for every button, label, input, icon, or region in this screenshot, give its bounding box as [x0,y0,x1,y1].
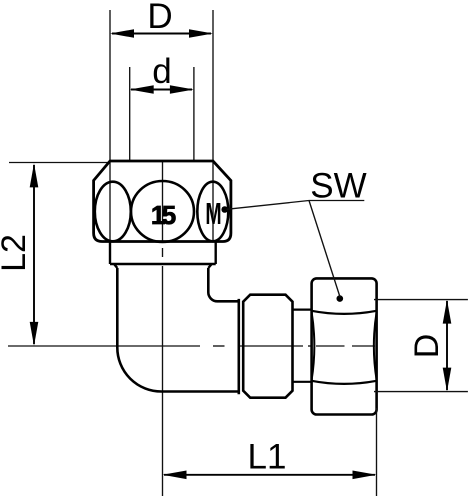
step ring at pipe end [238,299,241,394]
top nut body outline [94,161,231,242]
svg-text:L1: L1 [248,438,287,477]
top nut center facet ellipse [131,181,194,242]
dimension L1 arrow left [163,471,187,480]
top nut left facet ellipse [95,182,131,242]
svg-text:d: d [152,52,171,91]
dimension L1 extension line right [376,408,378,496]
leader dot on right nut [337,295,344,302]
dimension D (top) arrow right [189,29,213,38]
dimension D (top) arrow left [110,29,134,38]
dimension L2 extension line top [9,162,108,164]
SW underline [309,200,364,202]
vertical centerline of elbow axis [162,161,164,496]
dimension D (right) extension line top [374,299,468,301]
dimension L1 arrow right [353,471,377,480]
svg-text:15: 15 [151,200,176,230]
right nut facet line top [312,311,377,314]
elbow body outer contour [117,268,239,392]
right nut chamfer arc right [374,312,377,380]
svg-text:D: D [408,334,446,359]
dimension d dimension line [131,89,192,91]
leader dot at M facet [221,206,228,213]
dimension d extension line right [193,67,195,161]
svg-text:L2: L2 [0,234,33,272]
right nut outline [312,278,377,414]
dimension D (right) arrow top [443,300,452,324]
SW leader to M facet [227,201,310,210]
dimension L2 arrow top [30,163,39,187]
svg-text:M: M [205,198,221,232]
SW leader to right nut [309,201,340,298]
elbow body inner contour [208,268,239,301]
dimension d arrow right [170,85,194,94]
dimension D (top) dimension line [112,33,211,35]
dimension D (right) extension line bottom [374,391,468,393]
right nut facet line bottom [312,381,377,384]
gland cylinder [243,295,292,398]
svg-text:SW: SW [310,167,366,206]
right nut chamfer arc left [312,312,315,380]
svg-text:D: D [147,0,172,36]
neck between gland and nut [293,310,312,382]
dimension D (top) extension line right [212,10,214,242]
dimension D (top) extension line left [109,10,111,242]
dimension L1 dimension line [164,474,375,476]
dimension L2 dimension line [33,165,35,344]
dimension L2 arrow bottom [30,322,39,346]
dimension D (right) dimension line [446,301,448,390]
horizontal centerline / L2 bottom extension [8,345,375,347]
dimension d extension line left [129,67,131,161]
top nut right facet ellipse [197,182,228,242]
dimension D (right) arrow bottom [443,368,452,392]
collar below top nut [110,242,216,269]
dimension d arrow left [130,85,154,94]
